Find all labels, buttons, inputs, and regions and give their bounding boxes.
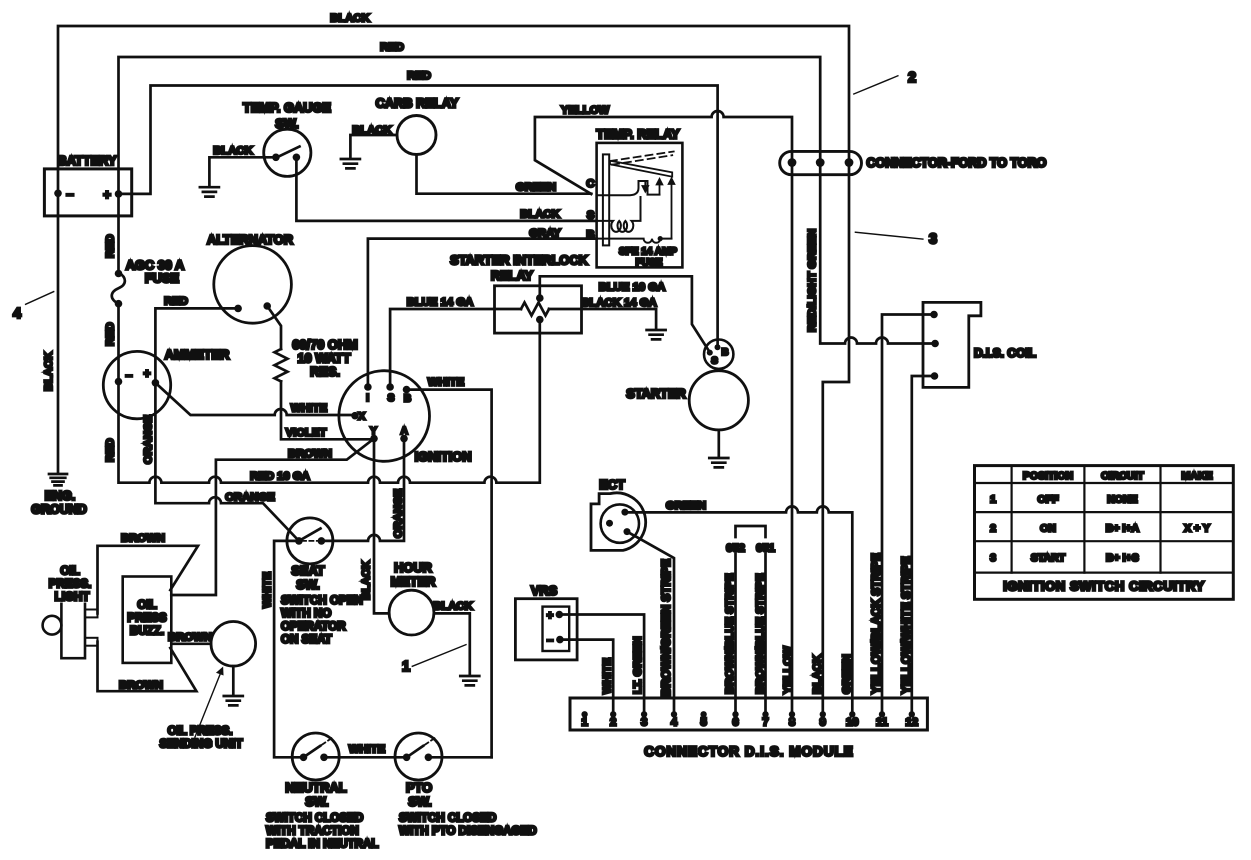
ammeter negative terminal <box>115 378 123 386</box>
temp relay coil on S wire <box>597 197 641 232</box>
wire WHITE seat switch to neutral switch (left loop side) <box>274 541 303 757</box>
svg-text:STARTER: STARTER <box>626 386 685 401</box>
seat switch arm <box>299 529 321 541</box>
svg-text:ENG.: ENG. <box>45 489 76 503</box>
callout 2 leader line <box>854 76 898 94</box>
svg-text:BLACK: BLACK <box>352 125 392 137</box>
svg-text:IGNITION: IGNITION <box>415 449 472 464</box>
svg-text:GREEN: GREEN <box>841 654 853 694</box>
svg-text:BROWN: BROWN <box>121 533 165 545</box>
svg-text:Y: Y <box>370 426 377 437</box>
svg-text:PEDAL IN NEUTRAL: PEDAL IN NEUTRAL <box>266 838 379 851</box>
svg-text:RED: RED <box>105 322 117 346</box>
wire battery negative down to engine ground (BLACK) <box>57 193 60 473</box>
svg-text:BLUE 10 GA: BLUE 10 GA <box>599 282 666 294</box>
table row divider 4 <box>975 571 1234 573</box>
svg-text:GRAY: GRAY <box>529 228 561 240</box>
pto switch arm <box>407 746 423 757</box>
D.I.S. coil bottom terminal <box>931 372 939 380</box>
oil press light top terminal tab <box>85 610 98 618</box>
wire BLACK hour meter to ground <box>434 613 470 675</box>
svg-text:BLACK: BLACK <box>330 13 370 25</box>
temp relay internal contact wire C <box>597 181 660 195</box>
module pin 7 <box>762 711 768 717</box>
wire starter motor to ground <box>717 430 720 457</box>
svg-text:RED: RED <box>105 438 117 462</box>
neutral switch circle <box>292 733 339 780</box>
svg-text:4: 4 <box>671 717 678 729</box>
oil press light lamp body <box>61 600 85 658</box>
wire VIOLET resistor down to ignition Y <box>281 381 374 439</box>
oil press light bottom terminal tab <box>85 638 98 646</box>
neutral switch right terminal <box>320 754 328 762</box>
svg-text:AMMETER: AMMETER <box>165 347 230 362</box>
wire BLUE 10 GA interlock top to starter solenoid S <box>540 276 710 352</box>
wire LT. GREEN VRS plus to module pin 3 <box>559 615 644 715</box>
svg-text:ORANGE: ORANGE <box>393 488 405 538</box>
module pin 6 <box>732 711 738 717</box>
wire WHITE VRS minus to module pin 2 <box>560 640 613 714</box>
VRS plus terminal <box>556 611 564 619</box>
ECT connector outline <box>591 493 646 551</box>
battery positive terminal <box>115 190 123 198</box>
wire RED battery positive to starter solenoid B <box>119 86 718 347</box>
svg-text:YELLOW/BLACK STRIPE: YELLOW/BLACK STRIPE <box>869 553 883 694</box>
svg-text:PRESS.: PRESS. <box>49 578 92 591</box>
module pin 4 <box>671 711 677 717</box>
svg-text:RES.: RES. <box>310 364 340 379</box>
ECT pin left <box>606 520 613 527</box>
svg-text:SWITCH CLOSED: SWITCH CLOSED <box>266 812 363 825</box>
svg-text:ORANGE: ORANGE <box>225 492 275 504</box>
svg-text:STARTER INTERLOCK: STARTER INTERLOCK <box>450 253 588 268</box>
svg-text:YELLOW/WHITE STRIPE: YELLOW/WHITE STRIPE <box>899 556 913 694</box>
battery negative terminal <box>54 190 62 198</box>
wire YELLOW/WHITE STRIPE DIS bottom to module pin 12 <box>912 376 935 714</box>
hour meter circle <box>389 590 434 635</box>
starter interlock relay box <box>495 286 582 333</box>
table row divider 1 <box>975 482 1234 484</box>
starter interlock relay bottom terminal <box>536 316 544 324</box>
ignition terminal B <box>403 386 411 394</box>
wire WHITE neutral switch to pto switch <box>324 756 407 759</box>
svg-text:4: 4 <box>13 306 21 322</box>
neutral switch left terminal <box>300 754 308 762</box>
D.I.S. coil outline <box>923 302 981 387</box>
wire BLACK temp gauge switch to ground <box>209 157 276 186</box>
svg-text:9: 9 <box>820 717 826 729</box>
svg-text:B: B <box>404 394 411 405</box>
svg-text:BROWN/GREEN STRIPE: BROWN/GREEN STRIPE <box>659 559 673 696</box>
svg-text:B+ I+A: B+ I+A <box>1106 523 1140 535</box>
svg-text:6: 6 <box>732 717 738 729</box>
svg-text:YELLOW: YELLOW <box>561 105 610 117</box>
svg-text:BUZZ.: BUZZ. <box>130 625 164 638</box>
svg-text:X: X <box>358 411 365 422</box>
svg-text:MAKE: MAKE <box>1182 470 1213 482</box>
wire BROWN bottom loop of oil press light <box>98 642 197 692</box>
svg-text:WHITE: WHITE <box>291 403 328 415</box>
ECT pin top <box>621 509 628 516</box>
svg-text:B: B <box>722 347 729 358</box>
ground carb relay ground symbol <box>341 159 360 168</box>
svg-text:052: 052 <box>726 543 745 555</box>
svg-text:S: S <box>587 210 595 222</box>
oil press buzzer box <box>123 577 172 663</box>
temp relay contact arrow middle (down) <box>643 183 649 192</box>
svg-text:SWITCH CLOSED: SWITCH CLOSED <box>399 812 496 825</box>
svg-text:TEMP. RELAY: TEMP. RELAY <box>596 127 680 142</box>
svg-text:GREEN: GREEN <box>516 181 556 193</box>
table column divider 1 <box>1010 466 1012 573</box>
pto switch circle <box>395 733 442 780</box>
wire BLACK connector pin3 down to module pin 9 <box>823 164 849 715</box>
wire BROWN top loop of oil press light <box>98 546 199 614</box>
svg-text:HOUR: HOUR <box>394 560 432 575</box>
fuse AGC 30 A body <box>112 272 125 303</box>
svg-text:1: 1 <box>990 494 996 506</box>
table row divider 2 <box>975 511 1234 513</box>
svg-text:CONNECTOR D.I.S. MODULE: CONNECTOR D.I.S. MODULE <box>644 744 854 759</box>
neutral switch arm dashed extension <box>322 738 332 745</box>
module pin 10 <box>849 711 855 717</box>
svg-text:IGNITION SWITCH CIRCUITRY: IGNITION SWITCH CIRCUITRY <box>1003 579 1205 594</box>
svg-text:+: + <box>103 187 111 202</box>
wire RED 10 GA ammeter negative to interlock bottom <box>119 320 540 483</box>
wire GRAY ignition I to temp relay B <box>368 239 597 387</box>
pto switch right terminal <box>425 754 433 762</box>
svg-text:SENDING UNIT: SENDING UNIT <box>159 738 242 751</box>
module pin 2 <box>610 711 616 717</box>
VRS inner box <box>543 607 570 651</box>
wire RED alternator to ammeter positive <box>155 308 238 382</box>
ignition terminal X <box>351 412 359 420</box>
svg-text:OPERATOR: OPERATOR <box>281 620 346 633</box>
svg-text:BLACK: BLACK <box>43 352 55 391</box>
starter solenoid S terminal <box>707 350 713 356</box>
svg-text:ECT: ECT <box>599 477 625 492</box>
wire ORANGE ammeter positive down to seat switch <box>155 383 299 541</box>
svg-text:SEAT: SEAT <box>291 563 324 578</box>
svg-text:3: 3 <box>641 717 647 729</box>
svg-text:OIL PRESS.: OIL PRESS. <box>168 725 233 738</box>
svg-text:CARB RELAY: CARB RELAY <box>376 96 459 111</box>
jumper 052/051 bracket over module pins 6-7 <box>736 526 766 714</box>
ignition terminal Y <box>370 435 378 443</box>
wire YELLOW/BLACK STRIPE DIS top to module pin 11 <box>882 315 934 715</box>
svg-text:8: 8 <box>789 717 795 729</box>
alternator right terminal <box>263 302 271 310</box>
fuse AGC 30 A terminal top <box>115 270 123 278</box>
ammeter circle <box>103 351 170 418</box>
seat switch dashed contact line <box>302 540 321 542</box>
wire YELLOW connector pin1 down to module pin 8 <box>791 164 794 715</box>
svg-text:RED: RED <box>380 42 404 54</box>
svg-text:BLACK 14 GA: BLACK 14 GA <box>581 297 656 309</box>
svg-text:BROWN: BROWN <box>168 632 212 644</box>
svg-text:CIRCUIT: CIRCUIT <box>1101 470 1144 482</box>
svg-text:ON: ON <box>1040 523 1056 535</box>
svg-text:+: + <box>143 367 150 381</box>
wire BROWN buzzer to oil press sending unit <box>171 642 211 645</box>
temp relay armature solid <box>610 161 672 177</box>
svg-text:RED: RED <box>164 296 188 308</box>
module pin 12 <box>909 711 915 717</box>
svg-text:SW.: SW. <box>408 794 431 809</box>
D.I.S. coil top terminal <box>930 311 938 319</box>
arrow callout to sending unit <box>195 668 223 737</box>
svg-text:GREEN: GREEN <box>666 500 706 512</box>
svg-text:SW.: SW. <box>275 116 298 131</box>
wire RED/LIGHT GREEN connector pin2 down to DIS coil middle <box>820 164 935 344</box>
ECT inner circle <box>601 504 639 542</box>
svg-text:–: – <box>547 635 553 647</box>
svg-text:2: 2 <box>908 70 916 86</box>
svg-text:10: 10 <box>846 717 859 729</box>
svg-text:CONNECTOR-FORD TO TORO: CONNECTOR-FORD TO TORO <box>867 156 1047 170</box>
module pin 8 <box>789 711 795 717</box>
connector D.I.S. module box <box>570 698 927 730</box>
starter interlock relay element zigzag <box>521 303 549 316</box>
svg-text:S: S <box>388 393 395 404</box>
svg-text:RELAY: RELAY <box>491 268 534 283</box>
svg-text:S: S <box>711 356 717 367</box>
table column divider 3 <box>1159 466 1161 573</box>
svg-text:3: 3 <box>929 232 937 248</box>
wire BROWN/GREEN STRIPE ECT to module pin 4 <box>627 532 674 714</box>
temp relay box <box>597 143 683 268</box>
svg-text:LIGHT: LIGHT <box>55 591 90 604</box>
svg-text:RED/LIGHT GREEN: RED/LIGHT GREEN <box>807 229 819 332</box>
alternator left terminal <box>234 305 242 313</box>
wire BLACK carb relay to ground <box>350 135 397 158</box>
svg-text:METER: METER <box>391 574 436 589</box>
svg-text:BROWN: BROWN <box>119 680 163 692</box>
ignition terminal A <box>400 435 408 443</box>
svg-text:BATTERY: BATTERY <box>57 153 116 168</box>
svg-text:RED: RED <box>407 70 431 82</box>
svg-text:PRESS: PRESS <box>127 612 167 625</box>
svg-text:–: – <box>126 368 133 382</box>
wire BROWN ignition Y to oil press buzzer <box>171 439 374 595</box>
callout 3 leader line <box>855 232 923 239</box>
svg-text:D.I.S. COIL: D.I.S. COIL <box>974 346 1036 360</box>
wire sending unit to ground <box>232 666 235 695</box>
svg-text:BLACK: BLACK <box>520 209 560 221</box>
ammeter positive terminal <box>152 379 160 387</box>
svg-text:+: + <box>547 610 553 622</box>
wire WHITE ammeter positive to ignition X <box>155 383 355 415</box>
ground temp gauge switch ground symbol <box>200 187 219 196</box>
ground black 14 ga ground symbol <box>647 330 666 339</box>
module pin 9 <box>820 711 826 717</box>
wire BLACK 14 GA interlock relay to ground <box>549 309 656 329</box>
svg-text:ORANGE: ORANGE <box>143 414 155 464</box>
wire GREEN ECT to module pin 10 <box>626 506 852 714</box>
seat switch circle <box>287 518 333 564</box>
svg-text:OFF: OFF <box>1038 494 1060 506</box>
pto switch left terminal <box>403 754 411 762</box>
svg-text:I: I <box>366 393 369 404</box>
temp relay right vertical with up arrow <box>669 179 675 239</box>
oil press sending unit circle <box>211 622 256 667</box>
wire BLACK battery negative loop to connector pin 3 <box>58 26 849 193</box>
wire RED fuse down to ammeter negative <box>117 304 120 382</box>
connector Ford to Toro oval <box>780 151 862 174</box>
svg-text:1: 1 <box>402 659 410 675</box>
wire RED battery positive to connector pin 2 <box>119 57 821 194</box>
temp relay fuse terminal dot <box>658 236 663 241</box>
callout 1 leader line <box>412 645 466 667</box>
svg-text:TEMP. GAUGE: TEMP. GAUGE <box>243 100 331 115</box>
battery box <box>44 169 131 216</box>
svg-text:BROWN/BLUE STRIPE: BROWN/BLUE STRIPE <box>724 573 736 694</box>
VRS outer box <box>515 599 577 660</box>
wire BLUE 14 GA ignition S to interlock relay <box>390 309 521 387</box>
VRS minus terminal <box>556 636 564 644</box>
alternator circle <box>214 246 292 324</box>
svg-text:GROUND: GROUND <box>31 503 87 517</box>
wire WHITE ignition B to pto loop <box>407 390 492 758</box>
module pin 11 <box>879 711 885 717</box>
temp relay contact arrow right (up) <box>657 179 663 195</box>
wire GREEN carb relay to temp relay C <box>417 155 592 194</box>
svg-text:WHITE: WHITE <box>602 657 614 694</box>
svg-text:BLACK: BLACK <box>213 145 253 157</box>
svg-text:POSITION: POSITION <box>1023 470 1073 482</box>
wire alternator right pin to resistor <box>267 306 281 349</box>
table column divider 2 <box>1083 466 1085 573</box>
wire BLACK temp gauge switch to temp relay S <box>296 157 596 221</box>
svg-text:BLACK: BLACK <box>812 655 824 694</box>
svg-text:ON SEAT: ON SEAT <box>281 633 332 646</box>
svg-text:NEUTRAL: NEUTRAL <box>285 780 346 795</box>
svg-text:SW.: SW. <box>305 794 328 809</box>
wire RED battery positive down to fuse <box>117 194 120 274</box>
starter solenoid B terminal <box>715 344 721 350</box>
starter interlock relay top terminal <box>536 294 544 302</box>
module pin 3 <box>641 711 647 717</box>
svg-text:WITH NO: WITH NO <box>281 607 331 620</box>
temp relay fuse wire B <box>597 239 672 243</box>
carb relay circle <box>397 116 436 155</box>
svg-text:FUSE: FUSE <box>145 271 180 286</box>
svg-text:051: 051 <box>756 543 775 555</box>
temp gauge switch circle <box>264 129 311 176</box>
svg-text:BROWN: BROWN <box>288 448 332 460</box>
svg-text:ALTERNATOR: ALTERNATOR <box>207 232 293 247</box>
svg-text:YELLOW: YELLOW <box>782 646 794 694</box>
ground starter ground symbol <box>709 458 728 467</box>
temp gauge switch right terminal <box>293 154 301 162</box>
svg-text:WHITE: WHITE <box>349 744 386 756</box>
ignition terminal I <box>364 383 372 391</box>
callout 4 leader line <box>26 292 54 305</box>
module pin 5 <box>700 711 706 717</box>
svg-text:WITH PTO DISENGAGED: WITH PTO DISENGAGED <box>399 825 537 838</box>
svg-text:RED: RED <box>105 234 117 258</box>
seat switch right terminal <box>318 537 326 545</box>
temp gauge switch left terminal <box>272 154 280 162</box>
svg-text:2: 2 <box>990 523 996 535</box>
svg-text:–: – <box>66 187 73 202</box>
ground sending unit ground symbol <box>224 696 243 705</box>
D.I.S. coil middle terminal <box>931 340 939 348</box>
connector Ford-Toro pin 3 <box>845 158 854 167</box>
svg-text:PTO: PTO <box>406 780 432 795</box>
svg-text:SWITCH OPEN: SWITCH OPEN <box>281 594 363 607</box>
svg-text:B: B <box>586 229 594 241</box>
svg-text:OIL: OIL <box>137 599 156 612</box>
ignition switch circuitry table frame <box>975 466 1234 600</box>
svg-text:5: 5 <box>700 717 706 729</box>
temp gauge switch arm <box>276 147 300 158</box>
svg-text:B+ I+S: B+ I+S <box>1106 552 1139 564</box>
svg-text:FUSE: FUSE <box>636 258 663 269</box>
svg-text:LT. GREEN: LT. GREEN <box>632 636 644 694</box>
svg-text:2: 2 <box>610 717 616 729</box>
svg-text:START: START <box>1031 552 1066 564</box>
svg-text:NONE: NONE <box>1107 494 1137 506</box>
svg-text:WHITE: WHITE <box>262 571 274 608</box>
svg-text:BROWN/BLUE STRIPE: BROWN/BLUE STRIPE <box>755 573 767 694</box>
svg-text:12: 12 <box>906 717 919 729</box>
starter motor circle <box>689 371 748 430</box>
temp relay armature dashed alternate position <box>610 152 674 165</box>
oil press light bulb circle <box>43 616 62 635</box>
connector Ford-Toro pin 2 <box>816 158 825 167</box>
table row divider 3 <box>975 540 1234 542</box>
svg-text:SW.: SW. <box>296 577 319 592</box>
svg-text:A: A <box>401 426 408 437</box>
svg-text:WITH TRACTION: WITH TRACTION <box>266 825 359 838</box>
ground engine ground symbol <box>49 474 67 485</box>
neutral switch arm <box>304 746 321 757</box>
wire BLACK ignition Y down to hour meter <box>374 439 389 614</box>
ECT pin bottom <box>624 528 631 535</box>
svg-text:VRS: VRS <box>531 583 558 598</box>
svg-text:BLACK: BLACK <box>433 601 473 613</box>
starter solenoid connector circle <box>704 340 733 369</box>
wire YELLOW temp relay C to connector pin 1 <box>535 111 792 194</box>
module pin 1 <box>581 711 587 717</box>
ignition switch circle <box>339 371 430 462</box>
svg-text:X + Y: X + Y <box>1184 523 1210 535</box>
svg-text:C: C <box>586 178 594 190</box>
ground hour meter ground symbol <box>460 676 479 685</box>
svg-text:BLUE 14 GA: BLUE 14 GA <box>407 297 474 309</box>
svg-text:RED 10 GA: RED 10 GA <box>250 471 310 483</box>
svg-text:7: 7 <box>762 717 768 729</box>
svg-text:WHITE: WHITE <box>428 377 465 389</box>
svg-text:VIOLET: VIOLET <box>286 427 327 439</box>
svg-text:1: 1 <box>581 717 587 729</box>
wire pto switch right to ignition B loop <box>428 756 491 759</box>
connector Ford-Toro pin 1 <box>788 158 797 167</box>
pto switch arm dashed extension <box>425 738 435 745</box>
resistor 60/70 ohm zigzag <box>275 349 288 381</box>
seat switch left terminal <box>295 537 303 545</box>
svg-text:OIL: OIL <box>60 565 79 578</box>
wire ORANGE ignition A down to seat switch <box>321 439 404 541</box>
temp relay internal bar <box>603 154 609 245</box>
ignition terminal S <box>386 383 394 391</box>
svg-text:SFE 14 AMP: SFE 14 AMP <box>619 247 677 258</box>
svg-text:3: 3 <box>990 552 996 564</box>
svg-text:11: 11 <box>876 717 888 729</box>
fuse AGC 30 A terminal bottom <box>115 300 123 308</box>
